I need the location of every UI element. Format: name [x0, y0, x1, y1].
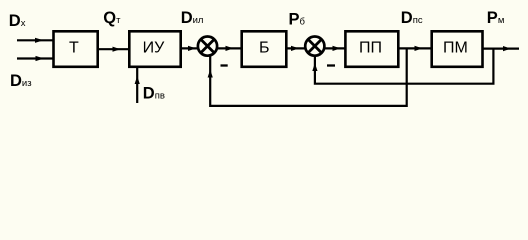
svg-text:Б: Б — [259, 40, 270, 57]
svg-text:ПМ: ПМ — [443, 40, 468, 57]
svg-text:Т: Т — [69, 40, 79, 57]
svg-text:ПП: ПП — [359, 40, 382, 57]
svg-text:ИУ: ИУ — [143, 40, 166, 57]
